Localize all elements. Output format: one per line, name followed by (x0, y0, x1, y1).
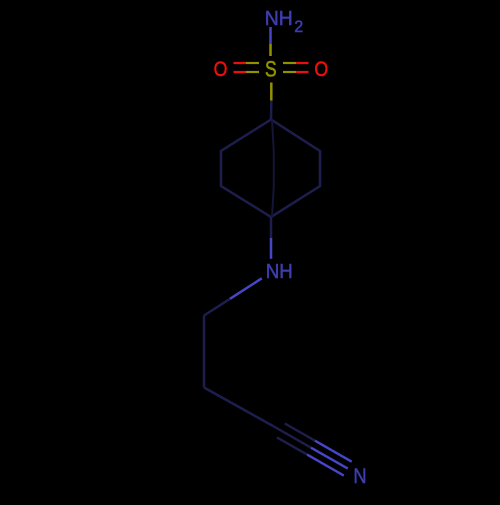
bond C2-C3 (204, 388, 273, 427)
ring central bridge (272, 120, 274, 218)
S=O left double bond (234, 63, 260, 72)
bond S-C olive half (270, 83, 273, 101)
S=O right double bond (283, 63, 309, 72)
svg-text:NH: NH (266, 261, 293, 283)
bond S-C carbon half (270, 101, 273, 120)
bond N-S upper blue half (269, 27, 272, 44)
bond C1-C2 (203, 316, 206, 388)
svg-text:N: N (353, 464, 366, 488)
svg-text:O: O (214, 58, 228, 81)
bond N-S lower olive half (269, 44, 272, 56)
svg-text:NH: NH (265, 8, 293, 30)
bond NH-C1 blue half (230, 278, 262, 299)
bond C-NH carbon half (270, 217, 273, 238)
nitrile triple bond center line (273, 426, 311, 448)
ring bicyclo outline (221, 120, 320, 218)
svg-text:2: 2 (294, 18, 303, 36)
svg-text:O: O (314, 58, 328, 81)
nitrile triple bond lower line (277, 437, 307, 454)
bond NH-C1 carbon half (204, 299, 230, 316)
bond C-NH blue half (270, 238, 273, 259)
nitrile triple bond upper line (285, 424, 315, 441)
svg-text:S: S (265, 56, 277, 81)
